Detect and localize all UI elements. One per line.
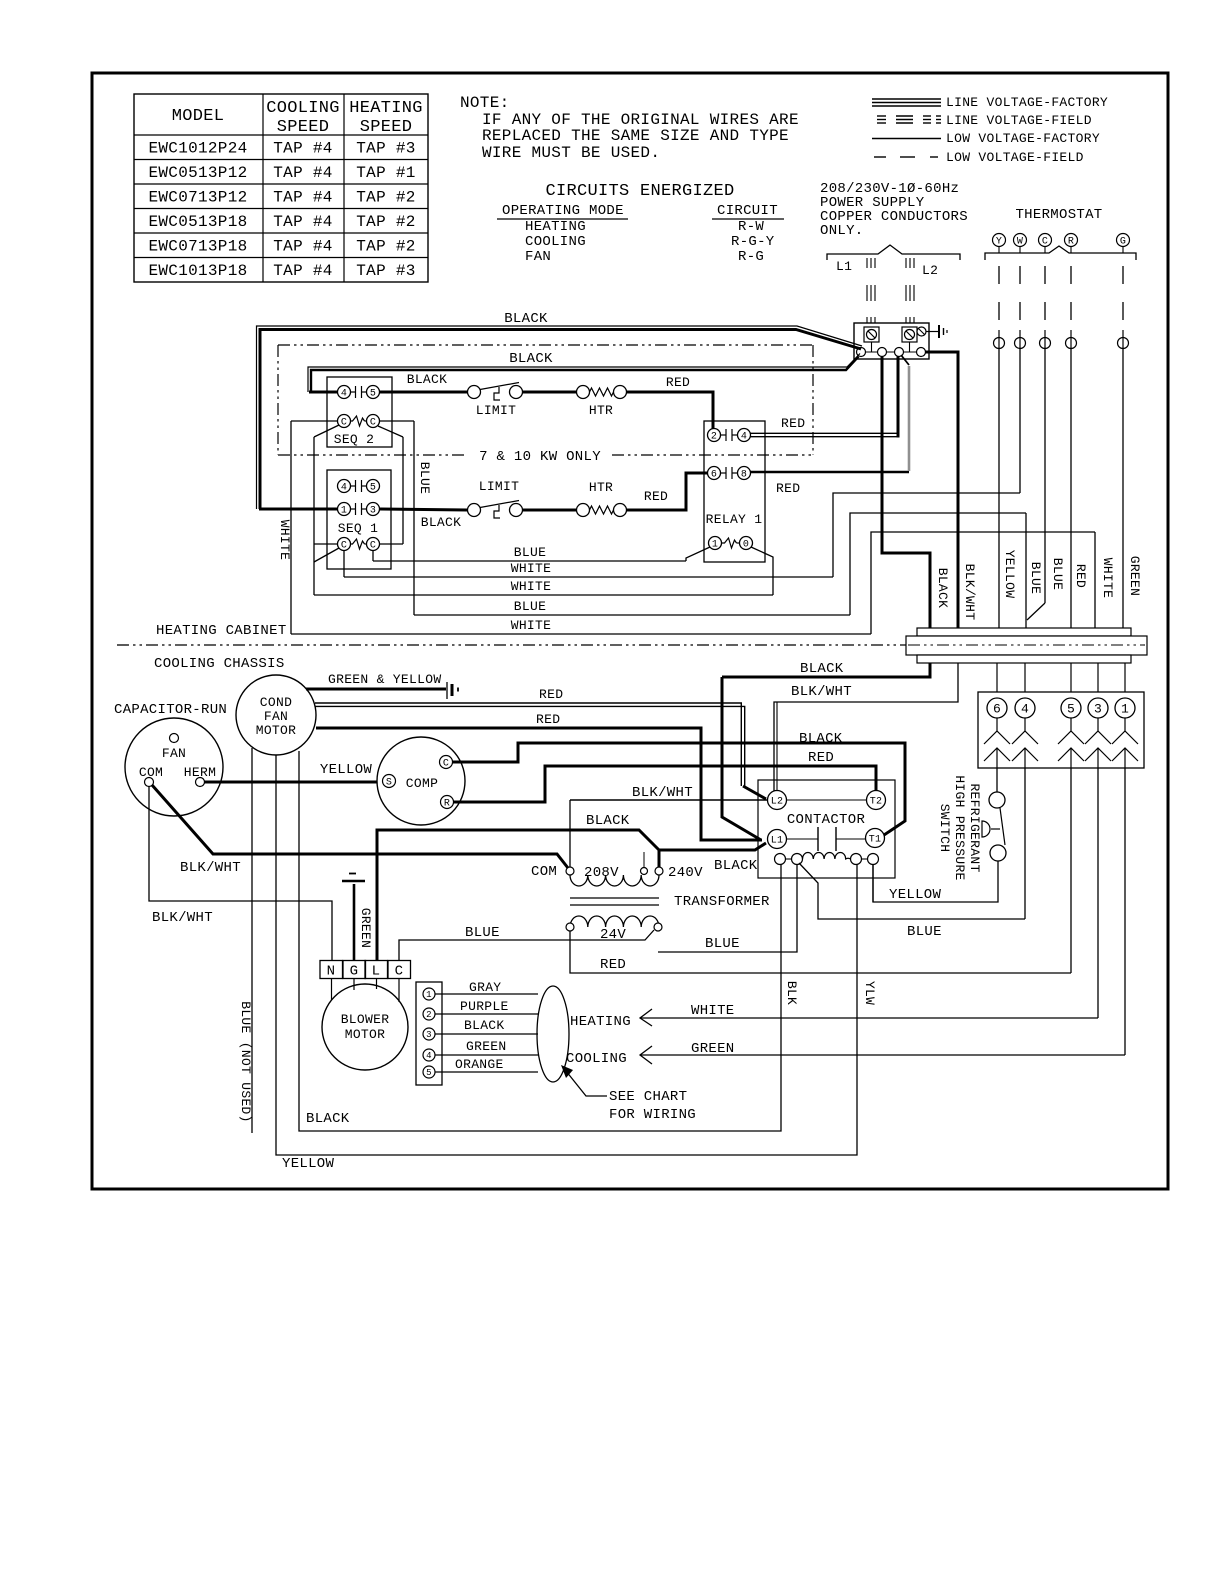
plug pin 6 bbox=[987, 698, 1007, 718]
svg-text:RED: RED bbox=[1073, 564, 1088, 588]
wire blue coil to transformer secondary bbox=[658, 865, 797, 953]
svg-text:WHITE: WHITE bbox=[277, 520, 292, 561]
svg-text:WHITE: WHITE bbox=[691, 1003, 735, 1019]
legend: line voltage field symbol bbox=[877, 115, 886, 117]
splice points bbox=[998, 330, 1000, 349]
compressor circle bbox=[377, 737, 465, 825]
sequencer SEQ 1 box bbox=[327, 470, 391, 569]
svg-text:GREEN & YELLOW: GREEN & YELLOW bbox=[328, 672, 441, 687]
wire N to blower bbox=[331, 979, 333, 1001]
svg-text:C: C bbox=[341, 418, 347, 429]
svg-text:HTR: HTR bbox=[589, 480, 613, 495]
wire blk/wht power to strip bbox=[925, 352, 958, 628]
wire white riser bbox=[871, 532, 1095, 634]
see chart leader bbox=[566, 1071, 607, 1096]
svg-text:5: 5 bbox=[426, 1068, 432, 1078]
svg-text:BLACK: BLACK bbox=[464, 1018, 505, 1033]
thermostat terminal G bbox=[1117, 234, 1130, 247]
svg-text:BLACK: BLACK bbox=[714, 858, 758, 874]
svg-text:BLACK: BLACK bbox=[421, 515, 462, 530]
SEQ1 contact 4-5 bbox=[351, 485, 356, 487]
svg-text:TAP #2: TAP #2 bbox=[356, 238, 415, 256]
svg-text:LOW VOLTAGE-FACTORY: LOW VOLTAGE-FACTORY bbox=[946, 131, 1100, 146]
heater element HTR2 bbox=[590, 506, 614, 514]
svg-text:BLACK: BLACK bbox=[935, 568, 950, 609]
svg-text:1: 1 bbox=[341, 506, 347, 517]
wire: inner black bus echo bbox=[308, 354, 860, 393]
svg-text:TRANSFORMER: TRANSFORMER bbox=[674, 894, 770, 910]
wire red HTR1 to relay 2 bbox=[627, 392, 714, 429]
contactor internal L2-T2 bbox=[787, 799, 867, 801]
svg-text:GREEN: GREEN bbox=[358, 908, 373, 949]
wire black down to L1 bbox=[722, 677, 761, 840]
relay coil bbox=[722, 538, 737, 548]
svg-text:BLUE (NOT USED): BLUE (NOT USED) bbox=[238, 1001, 253, 1123]
cond fan motor circle bbox=[236, 675, 316, 755]
wire white plug 3 down bbox=[1097, 768, 1099, 1018]
svg-text:BLK/WHT: BLK/WHT bbox=[632, 785, 693, 801]
svg-text:R: R bbox=[1068, 237, 1074, 248]
wire black L terminal to 240V bbox=[377, 830, 659, 961]
transformer 240V terminal bbox=[655, 867, 663, 875]
wire G to blower bbox=[353, 979, 355, 991]
SEQ1 terminal C left bbox=[338, 538, 351, 551]
svg-text:BLUE: BLUE bbox=[465, 925, 500, 941]
relay coil terminal 0 bbox=[740, 537, 753, 550]
wire strip to plug bbox=[1070, 663, 1072, 692]
svg-text:HIGH PRESSURE: HIGH PRESSURE bbox=[952, 775, 967, 880]
svg-text:LOW VOLTAGE-FIELD: LOW VOLTAGE-FIELD bbox=[946, 150, 1084, 165]
SEQ2 terminal 4 bbox=[338, 386, 351, 399]
svg-text:SEQ 1: SEQ 1 bbox=[338, 521, 379, 536]
low voltage plug connector bbox=[978, 692, 1144, 768]
svg-text:BLACK: BLACK bbox=[586, 813, 630, 829]
transformer 24V right terminal bbox=[654, 923, 662, 931]
svg-text:240V: 240V bbox=[668, 865, 703, 881]
capacitor COM terminal bbox=[145, 778, 154, 787]
SEQ2 terminal C left bbox=[338, 415, 351, 428]
wire blk/wht COM to N terminal bbox=[149, 787, 332, 961]
wire black comp C to T1 bbox=[453, 743, 906, 835]
svg-text:REPLACED THE SAME SIZE AND TYP: REPLACED THE SAME SIZE AND TYPE bbox=[482, 127, 789, 145]
svg-text:208V: 208V bbox=[584, 865, 619, 881]
wire yellow motor to contactor coil bbox=[276, 755, 857, 1155]
svg-text:4: 4 bbox=[341, 483, 347, 494]
relay coil terminal 1 bbox=[709, 537, 722, 550]
svg-text:BLK: BLK bbox=[784, 981, 799, 1005]
wire blue jog bbox=[1027, 603, 1045, 620]
svg-text:4: 4 bbox=[426, 1051, 432, 1061]
wire plug 6 to pressure switch bbox=[996, 768, 998, 792]
blower speed pin strip bbox=[416, 982, 442, 1085]
svg-text:T1: T1 bbox=[869, 835, 882, 846]
svg-text:SWITCH: SWITCH bbox=[937, 804, 952, 853]
wire SEQ1 C-left h bbox=[314, 543, 338, 545]
svg-text:RED: RED bbox=[781, 416, 805, 431]
svg-text:1: 1 bbox=[712, 540, 718, 551]
wire: outer black bus bbox=[260, 330, 861, 510]
wire LIMIT1 to HTR1 bbox=[523, 391, 577, 394]
svg-text:THERMOSTAT: THERMOSTAT bbox=[1015, 207, 1102, 223]
compressor C terminal bbox=[440, 756, 453, 769]
plug pin 1 bbox=[1115, 698, 1135, 718]
svg-text:ORANGE: ORANGE bbox=[455, 1057, 504, 1072]
wire blue line1 bbox=[373, 560, 686, 562]
svg-text:R-G-Y: R-G-Y bbox=[731, 234, 775, 250]
wire black to SEQ2-4 bbox=[309, 391, 338, 394]
wire white to thermostat W bbox=[833, 493, 1020, 577]
transformer 24V left terminal bbox=[566, 923, 574, 931]
svg-text:BLUE: BLUE bbox=[1028, 562, 1043, 594]
pin 2 bbox=[423, 1008, 435, 1020]
capacitor HERM terminal bbox=[196, 778, 205, 787]
SEQ2 coil bbox=[351, 416, 365, 426]
svg-text:GRAY: GRAY bbox=[469, 980, 501, 995]
wire bus v3 bbox=[313, 437, 315, 595]
svg-text:L1: L1 bbox=[771, 836, 784, 847]
svg-text:FAN: FAN bbox=[162, 746, 186, 761]
wire white line5 bbox=[291, 633, 871, 635]
wire green plug 1 down bbox=[1124, 768, 1126, 1055]
legend: line voltage factory symbol bbox=[872, 98, 941, 100]
svg-text:L1: L1 bbox=[836, 259, 852, 274]
transformer COM terminal bbox=[566, 867, 574, 875]
wire black motor to contactor coil bbox=[299, 751, 781, 1131]
svg-text:EWC0513P18: EWC0513P18 bbox=[148, 213, 247, 231]
svg-text:8: 8 bbox=[741, 470, 747, 481]
terminal strip bbox=[917, 628, 1131, 636]
legend: low voltage factory symbol bbox=[872, 138, 941, 140]
wire blk/wht strip to L2 bbox=[774, 663, 958, 791]
wire diag SEQ2 C-left bbox=[314, 425, 339, 437]
contactor coil bbox=[775, 854, 786, 865]
svg-text:Y: Y bbox=[996, 237, 1002, 248]
wire yellow switch to contactor coil bbox=[873, 861, 998, 902]
wire black SEQ1-3 to LIMIT2 bbox=[380, 509, 468, 510]
svg-text:BLUE: BLUE bbox=[417, 462, 432, 494]
thermostat field wires (dashed) bbox=[998, 266, 1000, 284]
wire blue bus v5 bbox=[413, 421, 415, 615]
wire white line3 bbox=[314, 594, 773, 596]
svg-text:BLUE: BLUE bbox=[514, 599, 546, 614]
svg-text:EWC1013P18: EWC1013P18 bbox=[148, 262, 247, 280]
svg-text:2: 2 bbox=[426, 1010, 432, 1020]
wire blue line4 bbox=[414, 614, 850, 616]
relay contact 2-4 bbox=[721, 434, 727, 436]
wire bus v4 bbox=[402, 437, 404, 544]
svg-text:TAP #4: TAP #4 bbox=[273, 164, 332, 182]
wire blk/wht COM to transformer COM bbox=[152, 785, 568, 868]
svg-text:BLK/WHT: BLK/WHT bbox=[180, 860, 241, 876]
wire: outer black bus echo bbox=[257, 326, 863, 509]
svg-text:COND: COND bbox=[260, 695, 292, 710]
wire relay 1 to blue line bbox=[686, 547, 710, 561]
thermostat terminal Y bbox=[993, 234, 1006, 247]
wire: inner black bus bbox=[311, 357, 859, 393]
svg-text:BLACK: BLACK bbox=[306, 1111, 350, 1127]
svg-text:BLACK: BLACK bbox=[407, 372, 448, 387]
wire white heating bbox=[640, 1017, 1098, 1019]
compressor R terminal bbox=[441, 796, 454, 809]
wire harness oval bbox=[537, 986, 569, 1082]
SEQ2 contact 4-5 bbox=[351, 391, 356, 393]
svg-text:NOTE:: NOTE: bbox=[460, 94, 510, 112]
svg-text:G: G bbox=[350, 964, 359, 980]
heater element HTR1 bbox=[590, 388, 614, 396]
dash-dot through strip bbox=[908, 644, 1145, 646]
page border frame bbox=[92, 73, 1168, 1189]
wire L to blower bbox=[376, 979, 378, 990]
wire red relay 4 to power block (double) bbox=[751, 432, 898, 434]
SEQ1 coil bbox=[351, 539, 365, 549]
svg-text:COOLING: COOLING bbox=[266, 99, 340, 118]
svg-text:WIRE MUST BE USED.: WIRE MUST BE USED. bbox=[482, 144, 660, 162]
svg-text:N: N bbox=[327, 964, 336, 980]
wire ORANGE bbox=[435, 1071, 538, 1073]
svg-text:HEATING CABINET: HEATING CABINET bbox=[156, 623, 287, 639]
svg-text:CONTACTOR: CONTACTOR bbox=[787, 812, 866, 828]
capacitor FAN terminal bbox=[170, 734, 179, 743]
svg-text:REFRIGERANT: REFRIGERANT bbox=[967, 783, 982, 872]
svg-text:COMP: COMP bbox=[406, 776, 438, 791]
svg-text:SEQ 2: SEQ 2 bbox=[334, 432, 375, 447]
svg-text:R-G: R-G bbox=[738, 249, 764, 265]
model/speed table bbox=[134, 94, 428, 282]
svg-text:BLK/WHT: BLK/WHT bbox=[152, 910, 213, 926]
HTR2 right terminal bbox=[614, 504, 627, 517]
svg-text:R-W: R-W bbox=[738, 219, 764, 235]
svg-text:BLACK: BLACK bbox=[799, 731, 843, 747]
wire GRAY bbox=[435, 993, 538, 995]
wire SEQ1 C-left stub down bbox=[343, 551, 345, 578]
svg-text:FAN: FAN bbox=[525, 249, 551, 265]
wire diag SEQ2 C-right bbox=[378, 426, 403, 437]
wire black SEQ2-5 to LIMIT bbox=[380, 391, 468, 394]
svg-text:HEATING: HEATING bbox=[349, 99, 423, 118]
svg-text:RED: RED bbox=[776, 481, 800, 496]
divider heating/cooling dash-dot bbox=[117, 644, 1147, 646]
wire blk/wht double bbox=[776, 702, 778, 791]
svg-text:6: 6 bbox=[993, 702, 1001, 717]
208V stub bbox=[643, 852, 645, 868]
svg-text:L: L bbox=[372, 964, 381, 980]
svg-text:SPEED: SPEED bbox=[277, 118, 330, 137]
svg-text:L2: L2 bbox=[771, 797, 784, 808]
SEQ1 terminal 3 bbox=[367, 503, 380, 516]
terminal block bus and terminals bbox=[861, 351, 921, 353]
svg-text:5: 5 bbox=[1067, 702, 1075, 717]
svg-text:YELLOW: YELLOW bbox=[320, 762, 373, 778]
wire blk/wht COM up bbox=[569, 800, 571, 867]
wire LIMIT2 to HTR2 bbox=[523, 509, 577, 512]
ground symbol bbox=[926, 331, 938, 333]
contactor box bbox=[758, 780, 895, 878]
wire strip to plug bbox=[1124, 663, 1126, 692]
wire red plug 5 down bbox=[1070, 768, 1072, 973]
wire BLACK bbox=[435, 1033, 538, 1035]
arrow head cooling bbox=[640, 1046, 652, 1064]
SEQ2 terminal C right bbox=[367, 415, 380, 428]
svg-text:GREEN: GREEN bbox=[466, 1039, 507, 1054]
switch actuator bbox=[982, 821, 990, 837]
pin 4 bbox=[423, 1049, 435, 1061]
contactor T1 bbox=[866, 829, 885, 848]
wire blue plug 4 down bbox=[1024, 768, 1026, 919]
relay terminal 4 bbox=[738, 429, 751, 442]
wire PURPLE bbox=[435, 1013, 538, 1015]
svg-text:COOLING: COOLING bbox=[566, 1051, 627, 1067]
svg-text:BLACK: BLACK bbox=[504, 311, 548, 327]
relay RELAY 1 box bbox=[704, 421, 765, 562]
wire relay 0 to white line bbox=[751, 547, 773, 595]
limit switch 1 bbox=[468, 386, 481, 399]
SEQ2 terminal 5 bbox=[367, 386, 380, 399]
svg-text:3: 3 bbox=[1094, 702, 1102, 717]
relay terminal 8 bbox=[738, 467, 751, 480]
sequencer SEQ 2 box bbox=[327, 377, 392, 447]
svg-text:WHITE: WHITE bbox=[511, 561, 552, 576]
wire white line2 bbox=[344, 576, 833, 578]
svg-text:L2: L2 bbox=[922, 263, 938, 278]
plug pin 4 bbox=[1015, 698, 1035, 718]
svg-text:TAP #4: TAP #4 bbox=[273, 189, 332, 207]
wire strip to plug bbox=[1097, 663, 1099, 692]
svg-text:RED: RED bbox=[539, 687, 563, 702]
switch blade bbox=[1000, 808, 1005, 845]
thermostat terminal R bbox=[1065, 234, 1078, 247]
thermostat bracket bbox=[985, 246, 1136, 260]
HTR1 right terminal bbox=[614, 386, 627, 399]
transformer core bbox=[570, 897, 659, 899]
HTR1 left terminal bbox=[577, 386, 590, 399]
contactor internal L1-T1 bbox=[787, 838, 819, 840]
svg-text:LINE VOLTAGE-FIELD: LINE VOLTAGE-FIELD bbox=[946, 113, 1092, 128]
svg-text:COOLING CHASSIS: COOLING CHASSIS bbox=[154, 656, 285, 672]
svg-text:BLOWER: BLOWER bbox=[341, 1012, 390, 1027]
wire red 24V to plug 5 bbox=[570, 931, 1071, 973]
svg-text:TAP #3: TAP #3 bbox=[356, 262, 415, 280]
svg-text:BLACK: BLACK bbox=[509, 351, 553, 367]
svg-text:RELAY 1: RELAY 1 bbox=[706, 512, 763, 527]
terminal blocks N G L C bbox=[320, 961, 343, 979]
wire blk/wht COM to L2 bbox=[570, 799, 768, 801]
pin 3 bbox=[423, 1028, 435, 1040]
line voltage field wires from supply bbox=[866, 258, 868, 268]
svg-text:LINE VOLTAGE-FACTORY: LINE VOLTAGE-FACTORY bbox=[946, 95, 1108, 110]
wire GREEN bbox=[435, 1054, 538, 1056]
svg-text:BLK/WHT: BLK/WHT bbox=[962, 564, 977, 621]
wire white bus v bbox=[290, 421, 292, 634]
svg-text:GREEN: GREEN bbox=[1127, 556, 1142, 597]
contactor contact bar bbox=[817, 827, 819, 851]
svg-text:W: W bbox=[1017, 237, 1023, 248]
wire SEQ2 C-left to white bus bbox=[291, 420, 338, 422]
svg-text:RED: RED bbox=[600, 957, 626, 973]
relay contact 6-8 bbox=[721, 472, 727, 474]
svg-text:4: 4 bbox=[741, 432, 747, 443]
wire C to blower bbox=[398, 979, 400, 1003]
thermostat terminal W bbox=[1014, 234, 1027, 247]
wire blue thermostat C to strip bbox=[1044, 349, 1046, 604]
wire strip to plug bbox=[996, 663, 998, 692]
svg-text:C: C bbox=[443, 759, 449, 770]
svg-text:TAP #2: TAP #2 bbox=[356, 213, 415, 231]
HTR2 left terminal bbox=[577, 504, 590, 517]
svg-text:6: 6 bbox=[711, 470, 717, 481]
wire yellow thermostat Y to strip bbox=[998, 349, 1000, 629]
pin 5 bbox=[423, 1066, 435, 1078]
svg-text:WHITE: WHITE bbox=[1100, 558, 1115, 599]
relay terminal 6 bbox=[708, 467, 721, 480]
svg-text:PURPLE: PURPLE bbox=[460, 999, 509, 1014]
SEQ1 terminal 4 bbox=[338, 480, 351, 493]
svg-text:ONLY.: ONLY. bbox=[820, 223, 864, 239]
power supply bracket bbox=[827, 245, 960, 260]
svg-text:COM: COM bbox=[531, 864, 557, 880]
svg-text:1: 1 bbox=[1121, 702, 1129, 717]
svg-text:C: C bbox=[370, 418, 376, 429]
svg-text:1: 1 bbox=[426, 990, 432, 1000]
svg-text:CIRCUITS ENERGIZED: CIRCUITS ENERGIZED bbox=[545, 182, 734, 201]
svg-text:4: 4 bbox=[341, 389, 347, 400]
wire red riser to power block bbox=[897, 357, 900, 438]
svg-text:2: 2 bbox=[711, 432, 717, 443]
svg-text:C: C bbox=[395, 964, 404, 980]
svg-text:OPERATING MODE: OPERATING MODE bbox=[502, 203, 624, 219]
svg-text:BLUE: BLUE bbox=[514, 545, 546, 560]
svg-text:RED: RED bbox=[536, 712, 560, 727]
svg-text:TAP #2: TAP #2 bbox=[356, 189, 415, 207]
svg-text:S: S bbox=[386, 778, 392, 789]
svg-text:EWC0713P12: EWC0713P12 bbox=[148, 189, 247, 207]
svg-text:YLW: YLW bbox=[862, 981, 877, 1005]
svg-text:TAP #4: TAP #4 bbox=[273, 140, 332, 158]
svg-text:4: 4 bbox=[1021, 702, 1029, 717]
wire red comp R to T2 bbox=[454, 766, 877, 802]
svg-text:T2: T2 bbox=[870, 797, 883, 808]
svg-text:MODEL: MODEL bbox=[172, 107, 225, 126]
svg-text:MOTOR: MOTOR bbox=[256, 723, 297, 738]
wire green cooling bbox=[640, 1054, 1125, 1056]
svg-text:7 & 10 KW ONLY: 7 & 10 KW ONLY bbox=[479, 449, 601, 465]
svg-text:TAP #4: TAP #4 bbox=[273, 213, 332, 231]
wire white thermostat W down bbox=[1019, 349, 1021, 494]
wire black 240V to L1 bbox=[659, 843, 766, 867]
svg-text:G: G bbox=[1120, 237, 1126, 248]
svg-text:BLACK: BLACK bbox=[800, 661, 844, 677]
run capacitor circle bbox=[125, 718, 223, 816]
power terminal block bbox=[854, 323, 929, 359]
svg-text:SEE CHART: SEE CHART bbox=[609, 1089, 687, 1105]
svg-text:0: 0 bbox=[743, 540, 749, 551]
svg-text:RED: RED bbox=[808, 750, 834, 766]
SEQ1 terminal 1 bbox=[338, 503, 351, 516]
wire blue riser to strip bbox=[1025, 513, 1027, 628]
wire white riser to strip bbox=[1094, 532, 1096, 628]
svg-text:YELLOW: YELLOW bbox=[282, 1156, 335, 1172]
svg-text:TAP #3: TAP #3 bbox=[356, 140, 415, 158]
wire blue riser bbox=[850, 513, 1026, 615]
svg-text:FAN: FAN bbox=[264, 709, 288, 724]
wire red fan motor to L1 bbox=[316, 728, 762, 840]
transformer 208V terminal bbox=[641, 868, 648, 875]
ground screw bbox=[917, 327, 926, 336]
svg-text:TAP #1: TAP #1 bbox=[356, 164, 415, 182]
SEQ1 contact 1-3 bbox=[351, 508, 356, 510]
wire yellow herm to comp S bbox=[205, 781, 383, 784]
svg-text:EWC0513P12: EWC0513P12 bbox=[148, 164, 247, 182]
svg-text:MOTOR: MOTOR bbox=[345, 1027, 386, 1042]
